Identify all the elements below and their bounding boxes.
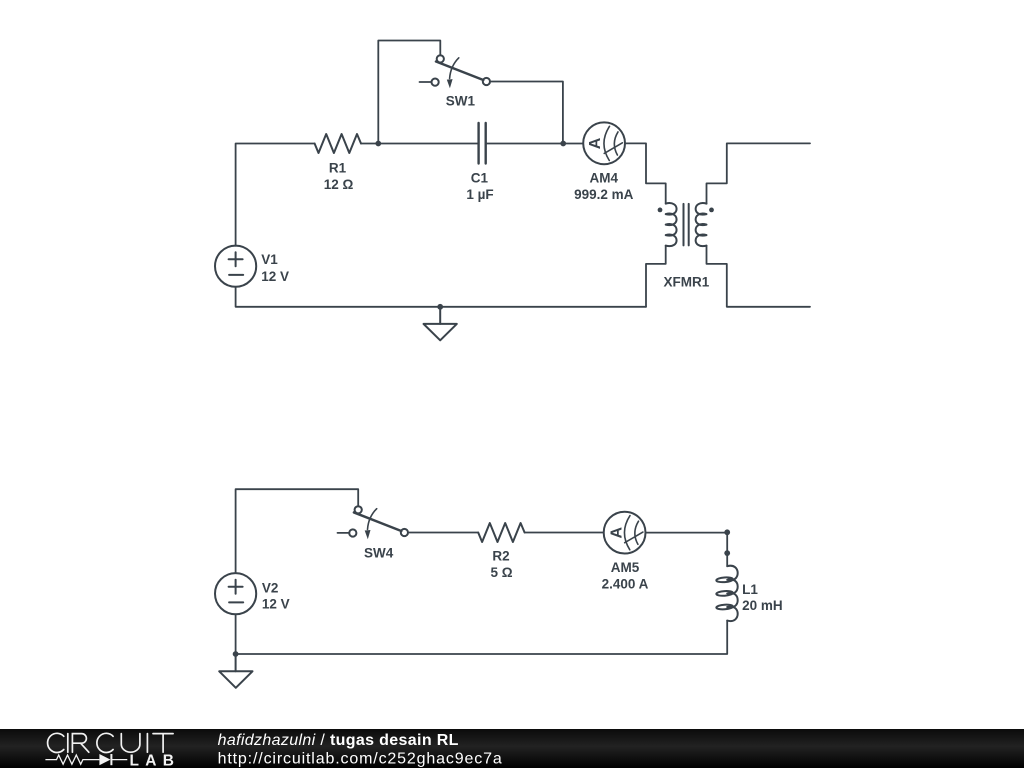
wire: [236, 621, 728, 654]
wire: [361, 143, 478, 145]
transformer XFMR1: [658, 203, 714, 246]
wire: [707, 246, 811, 307]
resistor R2: [478, 523, 524, 542]
logo CIRCUIT: [48, 733, 174, 752]
switch SW4: [338, 506, 409, 539]
svg-text:SW4: SW4: [364, 545, 394, 560]
wire: [525, 532, 604, 534]
wire: [236, 287, 646, 307]
svg-text:C1: C1: [471, 171, 489, 186]
svg-text:R1: R1: [329, 161, 347, 176]
wire: [486, 143, 584, 145]
node C: [724, 529, 730, 535]
svg-text:XFMR1: XFMR1: [664, 274, 710, 289]
node ground tap 2: [233, 651, 239, 657]
wire: [236, 144, 315, 246]
wire: [490, 82, 563, 144]
switch SW1: [420, 55, 491, 88]
node A: [375, 141, 381, 147]
ground: [219, 654, 252, 688]
wire: [646, 533, 728, 566]
svg-text:2.400 A: 2.400 A: [602, 576, 649, 591]
wire: [236, 489, 359, 573]
ground: [424, 307, 457, 341]
wire: [625, 143, 666, 203]
voltage source V2: [215, 573, 256, 614]
svg-text:AM4: AM4: [590, 171, 619, 186]
svg-text:999.2 mA: 999.2 mA: [574, 187, 634, 202]
svg-text:V1: V1: [261, 252, 278, 267]
svg-text:SW1: SW1: [446, 93, 476, 108]
svg-text:AM5: AM5: [611, 560, 640, 575]
svg-text:hafidzhazulni / tugas desain R: hafidzhazulni / tugas desain RL: [218, 732, 459, 749]
svg-text:12 V: 12 V: [262, 596, 290, 611]
svg-text:http://circuitlab.com/c252ghac: http://circuitlab.com/c252ghac9ec7a: [218, 750, 503, 767]
svg-text:A: A: [587, 137, 604, 149]
svg-text:L1: L1: [742, 582, 758, 597]
footer bar: [0, 729, 1024, 768]
wire: [646, 246, 666, 307]
svg-text:1 µF: 1 µF: [466, 187, 493, 202]
logo resistor-diode: [45, 754, 127, 765]
svg-text:A: A: [608, 526, 625, 538]
svg-text:LAB: LAB: [130, 752, 181, 768]
wire: [707, 143, 811, 203]
svg-text:12 Ω: 12 Ω: [324, 177, 354, 192]
wire: [378, 41, 440, 144]
svg-text:12 V: 12 V: [261, 269, 289, 284]
svg-text:20 mH: 20 mH: [742, 598, 783, 613]
ammeter AM5: [604, 512, 646, 554]
inductor L1: [716, 566, 738, 621]
voltage source V1: [215, 246, 256, 287]
svg-text:V2: V2: [262, 580, 279, 595]
wire: [408, 532, 478, 534]
wire: [235, 614, 237, 654]
node ground tap: [437, 304, 443, 310]
node D: [724, 550, 730, 556]
resistor R1: [315, 134, 361, 153]
svg-text:R2: R2: [492, 549, 509, 564]
ammeter AM4: [583, 122, 625, 164]
node B: [560, 141, 566, 147]
svg-text:5 Ω: 5 Ω: [490, 565, 512, 580]
capacitor C1: [479, 123, 486, 164]
